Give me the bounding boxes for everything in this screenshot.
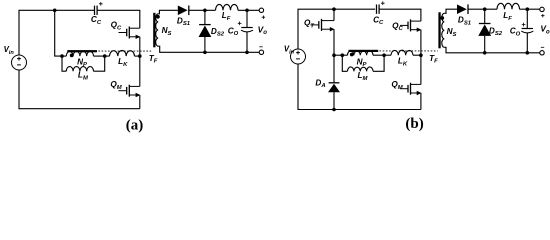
wire QC source down to node (b) [420,30,422,56]
polarity dot NP (b) [350,53,354,57]
diode DS1 (b) [457,4,468,14]
inductor LK (a) [110,50,135,56]
wire node to LK (a) [105,55,110,57]
node CO bottom (a) [245,51,249,55]
voltage source Vin (b) [291,49,306,64]
node switch-clamp junction (a) [138,54,142,58]
polarity dot NP (a) [70,54,74,58]
minus sign output (b) [541,46,544,48]
dashed coupling line (b) [380,50,438,52]
wire NP right lead (a) [94,55,105,57]
plus sign of CC (b) [381,1,385,5]
wire input rail down to primary (a) [55,10,62,56]
wire DS2 bottom segment (a) [204,37,206,52]
wire LM left branch (b) [342,55,347,71]
wire CO bottom segment (a) [246,32,248,53]
wire LM left branch (a) [62,56,66,71]
capacitor CC (b) [377,5,380,14]
mosfet QC (a) [119,27,141,40]
wire NP left lead (b) [342,54,347,56]
wire CO bottom segment (b) [526,33,528,53]
transformer core bar (a) [67,50,97,52]
polarity dot NS (a) [156,15,160,19]
dashed coupling line (a) [98,50,152,52]
node DS2 top (b) [483,7,487,11]
wire QT drain up (b) [333,9,335,20]
node NP right (a) [103,54,107,58]
minus sign output (a) [259,46,262,48]
wire LM right branch (b) [373,55,384,71]
wire DS2 top segment (b) [484,9,486,24]
mosfet QC (b) [400,19,422,32]
node NP left (b) [341,53,345,57]
wire CO top segment (b) [526,9,528,28]
wire Vin bottom to bottom rail (a) [19,70,140,109]
wire NP left lead (a) [62,55,66,57]
wire CC to QC drain corner (a) [97,10,140,28]
node QT source / DA cathode (b) [332,53,336,57]
inductor LF (a) [216,4,239,10]
output terminal bottom (a) [259,50,263,54]
wire Vin bottom to bottom rail (b) [298,64,421,110]
node QT drain junction (b) [332,7,336,11]
wire DS2 bottom segment (b) [484,36,486,53]
inductor LK (b) [391,50,413,55]
diode DS1 (a) [178,6,189,16]
voltage source Vin (a) [12,55,27,70]
plus sign of CO (a) [238,22,242,26]
wire NS top lead (a) [158,10,178,14]
node DS2 bottom (b) [483,51,487,55]
node CO top (b) [526,7,530,11]
wire DS1 cathode to LF (b) [468,8,497,10]
transformer core lines (a) [153,13,155,48]
wire CO top segment (a) [246,10,248,27]
svg-text:(a): (a) [126,118,144,134]
svg-text:(b): (b) [405,116,423,132]
mosfet QM (b) [400,83,422,96]
wire DA top segment (b) [333,55,335,83]
diode DA (b) [328,83,340,92]
winding NS (b) [442,13,445,47]
wire node to LK (b) [384,54,391,56]
node input rail junction (a) [53,9,57,13]
node CO bottom (b) [526,51,530,55]
plus sign of CC (a) [99,2,103,6]
wire QT source node to NP (b) [334,54,342,56]
wire LM right branch (a) [94,56,105,71]
node CO top (a) [245,9,249,13]
transformer core lines (b) [438,12,440,48]
wire Vin top to top rail (a) [19,10,95,55]
wire NS bottom lead (b) [444,47,540,53]
wire DA bottom segment (b) [333,92,335,109]
wire QT source down (b) [333,29,335,55]
output terminal top (b) [540,7,544,11]
node DA bottom rail junction (b) [332,108,336,112]
wire CC to QC drain corner (b) [379,9,421,21]
capacitor CO plates (b) [521,29,533,33]
transformer core bar (b) [349,50,379,52]
mosfet QM (a) [119,85,141,98]
diode DS2 (b) [478,24,491,36]
plus sign of CO (b) [522,23,526,27]
wire Vin top to top rail (b) [298,9,375,49]
wire NS bottom lead (a) [158,46,259,52]
wire DS1 cathode to LF (a) [189,9,216,11]
wire QM source to bottom rail (b) [420,93,422,110]
inductor LF (b) [497,3,520,9]
wire QC source down to node (a) [139,37,141,56]
capacitor CC (a) [95,6,98,15]
wire NS top lead (b) [444,9,457,13]
output terminal top (a) [259,8,263,12]
wire LF to output terminal (a) [238,9,260,11]
inductor LM (a) [66,67,93,72]
plus sign output (a) [262,16,265,19]
node DS2 bottom (a) [203,51,207,55]
plus sign output (b) [541,14,544,17]
capacitor CO plates (a) [241,28,253,32]
wire NP right lead (b) [373,54,384,56]
winding NP (b) [348,51,374,55]
winding NP (a) [66,51,93,56]
polarity dot NS (b) [440,16,444,20]
diode DS2 (a) [199,25,212,37]
wire LF to output terminal (b) [520,8,541,10]
wire LK to node (a) [135,55,140,57]
node DS2 top (a) [203,9,207,13]
node NP right (b) [382,53,386,57]
wire QM source to bottom rail (a) [139,95,141,109]
wire LK to node (b) [413,54,421,56]
inductor LM (b) [348,67,374,71]
node NP left (a) [60,54,64,58]
wire node down to QM drain (b) [420,55,422,84]
wire node down to QM drain (a) [139,56,141,86]
output terminal bottom (b) [540,51,544,55]
winding NS (a) [156,14,159,46]
node switch-clamp junction (b) [419,53,423,57]
wire DS2 top segment (a) [204,10,206,24]
mosfet QT (b) [311,19,335,32]
